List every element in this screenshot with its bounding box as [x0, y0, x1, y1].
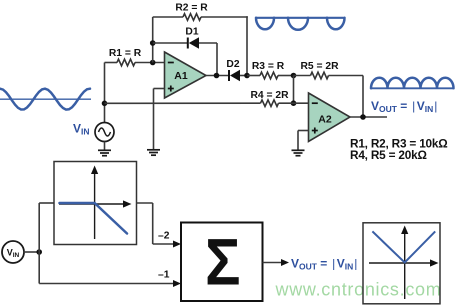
label VOUT = |VIN| (circuit output): [371, 99, 437, 114]
junction A1 inverting node: [150, 60, 156, 66]
svg-text:VOUT = |VIN|: VOUT = |VIN|: [291, 256, 357, 271]
svg-text:R5 = 2R: R5 = 2R: [300, 61, 339, 72]
arrowhead -2 input: [173, 241, 181, 248]
wire R5 feedback vertical: [362, 76, 364, 118]
abs plot horizontal axis: [369, 259, 439, 266]
wire inverting node to R2/D1: [152, 17, 154, 63]
op-amp A1: [165, 52, 207, 98]
ground (A1 non-inverting input): [147, 150, 160, 155]
summer sigma symbol: [205, 225, 241, 299]
label R4 = 2R: [250, 90, 289, 101]
junction output node: [360, 114, 366, 120]
junction block input node: [36, 249, 42, 255]
svg-text:D1: D1: [185, 27, 198, 38]
label VOUT = |VIN| (block diagram): [291, 256, 357, 271]
waveform output full-wave rectified: [371, 78, 454, 89]
absolute value plot box: [363, 223, 440, 304]
svg-text:Σ: Σ: [205, 225, 241, 299]
label A2: [318, 114, 332, 126]
wire R2 right vertical: [246, 16, 248, 75]
resistor R1: [117, 59, 135, 66]
junction D2/R3 node: [244, 73, 250, 79]
wire -1 path to summer: [39, 283, 174, 285]
watermark www.cntronics.com: [275, 280, 442, 300]
resistor R5: [311, 72, 329, 79]
wire VIN source to ground: [104, 142, 106, 151]
waveform A1 output inverted half-sine dips: [256, 18, 345, 30]
diode D1: [188, 37, 199, 48]
svg-text:A2: A2: [318, 114, 332, 126]
junction D1 branch: [150, 40, 156, 46]
junction A1 output node: [214, 73, 220, 79]
wire D1 right to A1 output: [199, 43, 217, 76]
svg-text:R3 = R: R3 = R: [252, 61, 285, 72]
svg-text:R4, R5 = 20kΩ: R4, R5 = 20kΩ: [350, 148, 427, 162]
op-amp A2: [309, 93, 351, 142]
label -2: [158, 231, 170, 242]
wire A1 output: [206, 75, 228, 77]
svg-text:VOUT = |VIN|: VOUT = |VIN|: [371, 99, 437, 114]
svg-text:–2: –2: [158, 231, 170, 242]
label component values R1 R2 R3: [350, 136, 448, 150]
label R5 = 2R: [300, 61, 339, 72]
svg-text:–1: –1: [158, 269, 170, 280]
ground (under VIN): [98, 150, 111, 155]
wire R5: [294, 75, 364, 77]
junction VIN input node: [102, 101, 108, 107]
label R3 = R: [252, 61, 285, 72]
junction R3/R5 node: [291, 73, 297, 79]
wire R3: [247, 75, 294, 77]
summer block: [181, 223, 263, 302]
resistor R2: [183, 14, 201, 21]
wire into transfer block: [39, 202, 54, 204]
transfer block horizontal axis: [59, 200, 132, 207]
svg-text:R2 = R: R2 = R: [175, 2, 208, 13]
wire block input vertical: [38, 203, 40, 284]
label A1: [174, 70, 188, 82]
svg-text:A1: A1: [174, 70, 188, 82]
wire A1 non-inverting input to ground: [154, 89, 165, 150]
abs plot V curve: [372, 231, 435, 262]
input sine waveform: [0, 89, 90, 110]
svg-text:R1 = R: R1 = R: [109, 48, 142, 59]
label VIN (source): [73, 121, 90, 136]
junction A2 inverting node: [291, 100, 297, 106]
label D1: [185, 27, 198, 38]
wire A2 non-inverting input to ground: [298, 131, 309, 151]
abs plot vertical axis: [401, 226, 408, 300]
diode D2: [229, 70, 240, 81]
wire transfer block output to summer: [137, 203, 175, 244]
label R1 = R: [109, 48, 142, 59]
arrowhead -1 input: [173, 280, 181, 287]
svg-text:R4 = 2R: R4 = 2R: [250, 90, 289, 101]
transfer block vertical axis: [91, 166, 98, 240]
wire summer output: [263, 262, 284, 264]
wire R2 top: [153, 16, 248, 18]
wire A2 output: [350, 116, 387, 118]
label R2 = R: [175, 2, 208, 13]
wire R3-R5 node to A2 inverting node: [293, 76, 295, 104]
wire D2 to R3 node: [240, 75, 247, 77]
wire D1 left: [153, 42, 187, 44]
wire R1 to A1 inverting input: [105, 62, 165, 64]
resistor R3: [260, 72, 278, 79]
waveform A1 output baseline: [255, 17, 343, 19]
resistor R4: [261, 100, 279, 107]
wire VIN to junction: [24, 251, 40, 253]
input sine waveform axis: [0, 98, 91, 100]
arrowhead summer output: [281, 259, 289, 266]
wire VIN node to R4 to A2 inverting input: [105, 102, 309, 104]
wire VIN node vertical: [104, 63, 106, 123]
transfer block response curve: [60, 203, 128, 234]
label component values R4 R5: [350, 148, 427, 162]
source VIN (block diagram): [2, 241, 24, 263]
label -1: [158, 269, 170, 280]
source VIN: [95, 123, 114, 142]
transfer function block: [54, 162, 137, 245]
label D2: [226, 59, 239, 70]
svg-text:D2: D2: [226, 59, 239, 70]
waveform output baseline: [371, 87, 454, 89]
svg-text:VIN: VIN: [73, 121, 90, 136]
svg-text:www.cntronics.com: www.cntronics.com: [275, 280, 442, 300]
ground (A2 non-inverting input): [292, 150, 305, 155]
